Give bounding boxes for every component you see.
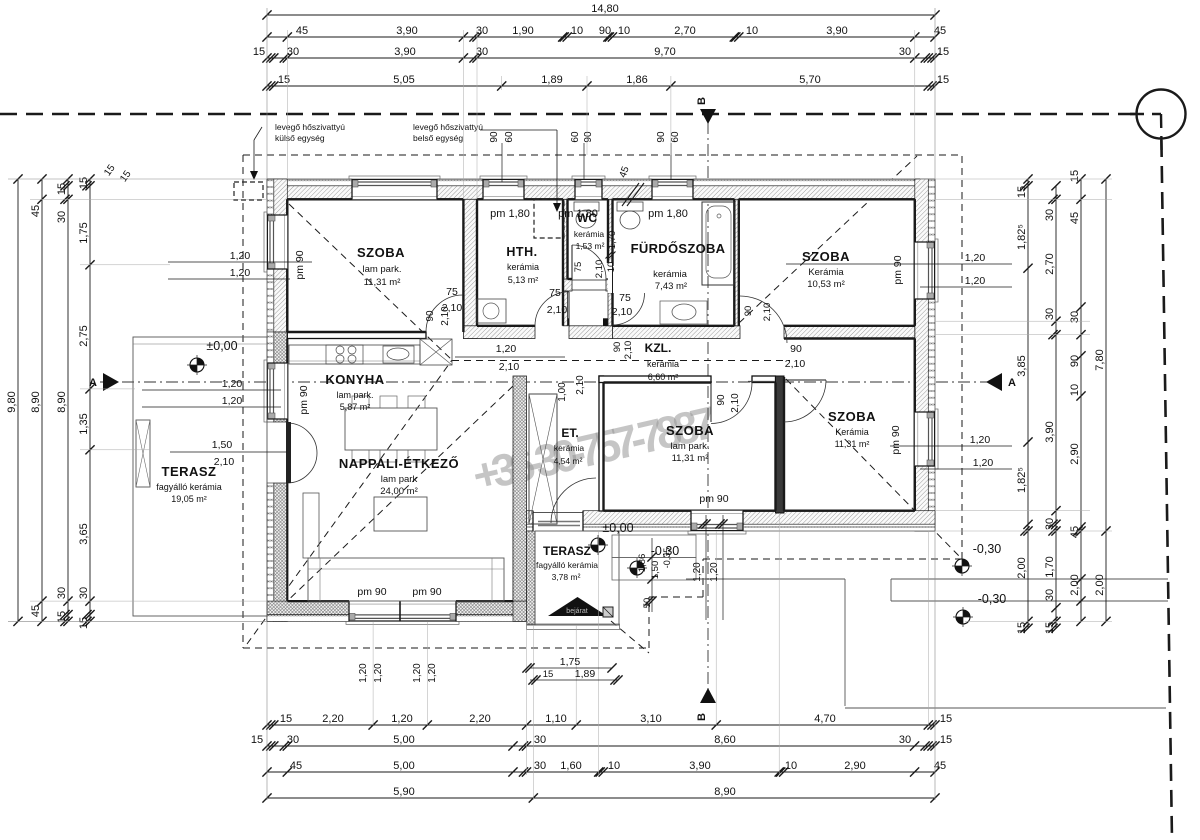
- svg-text:1,86: 1,86: [626, 74, 647, 86]
- door arc WC: [572, 245, 606, 279]
- dining chairs: [352, 396, 425, 462]
- svg-text:HTH.: HTH.: [506, 245, 537, 259]
- label TERASZ south: [536, 544, 598, 582]
- svg-text:-0,35: -0,35: [662, 548, 672, 569]
- svg-text:2,90: 2,90: [844, 760, 865, 772]
- window north WC: [572, 176, 605, 199]
- svg-text:TERASZ: TERASZ: [543, 544, 591, 558]
- window dim szoba1 west: [168, 250, 312, 279]
- svg-text:60: 60: [504, 131, 515, 143]
- svg-text:lam park.: lam park.: [670, 441, 709, 452]
- svg-text:45: 45: [934, 760, 946, 772]
- heat pump indoor unit dashed box: [534, 199, 564, 238]
- svg-text:SZOBA: SZOBA: [828, 409, 876, 424]
- sofa: [308, 558, 504, 601]
- svg-text:15: 15: [1044, 622, 1056, 634]
- door labels szoba middle: [716, 393, 741, 413]
- svg-text:10,53 m²: 10,53 m²: [807, 279, 845, 290]
- svg-text:45: 45: [296, 25, 308, 37]
- window dim konyha west: [142, 378, 281, 407]
- svg-text:1,70: 1,70: [1044, 556, 1056, 577]
- entrance door ET south: [533, 511, 583, 531]
- svg-text:11,31 m²: 11,31 m²: [835, 439, 870, 449]
- svg-text:7,80: 7,80: [1094, 349, 1106, 370]
- svg-text:pm 90: pm 90: [298, 385, 310, 414]
- kitchen counter: [289, 345, 420, 364]
- svg-text:1,20: 1,20: [965, 252, 986, 264]
- door labels FURDO: [612, 292, 633, 318]
- svg-text:NAPPALI-ÉTKEZŐ: NAPPALI-ÉTKEZŐ: [339, 456, 459, 471]
- door labels ET: [557, 375, 586, 402]
- svg-text:2,10: 2,10: [214, 456, 235, 468]
- svg-text:30: 30: [534, 734, 546, 746]
- svg-text:1,89: 1,89: [541, 74, 562, 86]
- svg-text:A: A: [1008, 377, 1016, 389]
- entrance arrow bejarat: [548, 597, 607, 616]
- door arc HTH: [535, 292, 569, 326]
- svg-text:15: 15: [940, 734, 952, 746]
- svg-text:TERASZ: TERASZ: [162, 464, 217, 479]
- closet ET: [529, 394, 557, 524]
- property boundary dashed line top: [0, 113, 1161, 116]
- svg-text:30: 30: [287, 46, 299, 58]
- svg-text:1,53 m²: 1,53 m²: [576, 241, 605, 251]
- interior wall between SZOBA1 and HTH: [463, 199, 477, 338]
- svg-text:pm 90: pm 90: [412, 586, 441, 598]
- svg-text:10: 10: [606, 262, 617, 273]
- svg-text:±0,00: ±0,00: [206, 339, 237, 353]
- svg-text:15: 15: [251, 734, 263, 746]
- survey marker east path 1: [952, 556, 972, 576]
- svg-text:5,05: 5,05: [393, 74, 414, 86]
- svg-text:lam park: lam park: [381, 474, 418, 485]
- svg-text:1,20: 1,20: [222, 378, 243, 390]
- svg-text:SZOBA: SZOBA: [802, 249, 850, 264]
- window dim szoba SE east: [890, 434, 1012, 469]
- kitchen tall cabinet: [420, 339, 452, 365]
- room outline SZOBA bottom-right: [784, 339, 915, 511]
- svg-text:15: 15: [1016, 186, 1028, 198]
- svg-text:2,10: 2,10: [785, 358, 806, 370]
- window east SZOBA bottom-right: [915, 409, 938, 469]
- door dim nappali west: [170, 439, 287, 468]
- dim extension horizontals right: [920, 179, 1112, 621]
- dim extension verticals bottom: [267, 513, 935, 800]
- exterior wall east: [915, 179, 935, 531]
- kitchen sink: [383, 346, 414, 363]
- svg-text:1,20: 1,20: [965, 275, 986, 287]
- label FURDOSZOBA: [631, 241, 726, 292]
- label KONYHA: [325, 372, 384, 412]
- toilet FURDOSZOBA: [617, 202, 643, 229]
- svg-text:ET.: ET.: [561, 426, 578, 440]
- svg-text:10: 10: [571, 25, 583, 37]
- eave dim 45 marker: [618, 165, 644, 206]
- svg-text:2,70: 2,70: [1044, 253, 1056, 274]
- door labels KONYHA opening: [455, 343, 565, 373]
- dining table: [345, 408, 437, 450]
- roof eaves dashed terrace diagonal: [611, 621, 649, 653]
- svg-text:10: 10: [746, 25, 758, 37]
- interior wall band south of top rooms: [287, 326, 915, 339]
- exterior wall west: [267, 179, 287, 621]
- svg-text:pm 1,80: pm 1,80: [648, 208, 688, 220]
- survey marker east path 2: [953, 607, 973, 627]
- washing machine HTH: [477, 299, 506, 323]
- svg-text:3,90: 3,90: [396, 25, 417, 37]
- svg-text:8,90: 8,90: [56, 391, 68, 412]
- window dim szoba NE east: [786, 252, 1012, 287]
- toilet WC: [574, 202, 599, 228]
- svg-text:2,10: 2,10: [575, 375, 586, 395]
- dim col left 2: [30, 174, 47, 626]
- terrace step dims: [637, 515, 728, 620]
- dim col left 3: [56, 174, 73, 626]
- svg-text:3,85: 3,85: [1016, 355, 1028, 376]
- dim row top 4: [262, 74, 949, 91]
- partition nook - szoba SE: [776, 376, 785, 513]
- door labels SZOBA1: [425, 306, 451, 326]
- svg-text:10: 10: [618, 25, 630, 37]
- svg-text:75: 75: [573, 262, 584, 273]
- svg-text:8,90: 8,90: [714, 786, 735, 798]
- svg-text:15: 15: [118, 168, 134, 184]
- washbasin FURDOSZOBA: [660, 301, 707, 324]
- svg-text:2,90: 2,90: [1069, 443, 1081, 464]
- svg-text:2,10: 2,10: [762, 303, 773, 322]
- svg-text:5,00: 5,00: [393, 760, 414, 772]
- svg-text:90: 90: [790, 343, 802, 355]
- section line A-A dashed: [100, 381, 1002, 383]
- svg-text:-0,30: -0,30: [973, 542, 1002, 556]
- label HTH: [506, 245, 539, 285]
- svg-text:B: B: [696, 713, 708, 721]
- svg-text:SZOBA: SZOBA: [357, 245, 405, 260]
- svg-text:3,90: 3,90: [826, 25, 847, 37]
- coffee table: [374, 497, 427, 531]
- svg-text:KZL.: KZL.: [645, 341, 672, 355]
- tv bench: [303, 493, 319, 558]
- section line B-B dashed: [707, 122, 709, 689]
- door labels SZOBA NE: [743, 303, 773, 322]
- svg-text:60: 60: [570, 131, 581, 143]
- garden path south: [686, 579, 1166, 708]
- svg-text:30: 30: [1044, 308, 1056, 320]
- label SZOBA north-west: [357, 245, 405, 288]
- svg-text:1,35: 1,35: [78, 413, 90, 434]
- svg-text:45: 45: [1069, 526, 1081, 538]
- wall middle szoba north: [599, 376, 711, 383]
- roof hip dashed NW: [289, 204, 452, 360]
- door arc SZOBA NE: [740, 296, 787, 343]
- svg-text:3,10: 3,10: [640, 713, 661, 725]
- section mark B bottom: [696, 688, 716, 721]
- svg-text:90: 90: [1069, 355, 1081, 367]
- extra 15 labels top-left: [102, 162, 134, 184]
- svg-text:1,82⁵: 1,82⁵: [1016, 224, 1028, 250]
- svg-text:90: 90: [583, 131, 594, 143]
- svg-text:2,20: 2,20: [322, 713, 343, 725]
- svg-text:1,82⁵: 1,82⁵: [1016, 467, 1028, 493]
- door arc SZOBA middle: [711, 383, 752, 424]
- svg-text:pm 90: pm 90: [699, 493, 728, 505]
- svg-text:pm 90: pm 90: [890, 425, 902, 454]
- svg-text:5,13 m²: 5,13 m²: [508, 275, 539, 285]
- svg-text:1,70: 1,70: [607, 231, 618, 250]
- svg-text:2,10: 2,10: [623, 341, 634, 360]
- svg-text:45: 45: [30, 205, 42, 217]
- svg-text:FÜRDŐSZOBA: FÜRDŐSZOBA: [631, 241, 726, 256]
- dim col right 1: [1016, 174, 1033, 634]
- dim row top 1 total 14,80: [262, 3, 939, 20]
- svg-text:30: 30: [534, 760, 546, 772]
- svg-text:kerámia: kerámia: [554, 443, 585, 453]
- roof valley dashed SE: [786, 379, 960, 557]
- svg-text:30: 30: [78, 587, 90, 599]
- svg-text:pm 90: pm 90: [892, 255, 904, 284]
- svg-text:1,89: 1,89: [575, 668, 596, 680]
- label SZOBA middle: [666, 423, 714, 464]
- svg-text:1,20: 1,20: [970, 434, 991, 446]
- dim row bottom 3: [262, 760, 946, 777]
- svg-text:15: 15: [253, 46, 265, 58]
- svg-text:15: 15: [1069, 170, 1081, 182]
- svg-text:30: 30: [56, 211, 68, 223]
- svg-text:belső egység: belső egység: [413, 133, 463, 143]
- window west SZOBA1: [264, 212, 287, 272]
- heat pump outdoor unit dashed box: [234, 182, 263, 200]
- svg-text:Kerámia: Kerámia: [835, 427, 869, 437]
- dim row top 2 rooms: [262, 25, 946, 42]
- roof hip dashed SW: [247, 360, 452, 644]
- room outline WC: [568, 199, 613, 279]
- survey marker terrace south 1: [588, 535, 608, 555]
- terrace dim row 1,75: [522, 656, 622, 685]
- svg-text:30: 30: [899, 46, 911, 58]
- svg-text:1,10: 1,10: [545, 713, 566, 725]
- svg-text:2,10: 2,10: [594, 260, 605, 279]
- svg-text:1,20: 1,20: [709, 562, 720, 582]
- svg-text:fagyálló kerámia: fagyálló kerámia: [536, 560, 598, 570]
- svg-text:90: 90: [743, 306, 754, 317]
- label TERASZ west: [156, 464, 222, 504]
- window east SZOBA top-right: [915, 239, 938, 302]
- dim col left 1 total 9,80: [6, 174, 23, 626]
- door arc SZOBA1: [426, 295, 463, 332]
- svg-text:1,20: 1,20: [358, 663, 369, 683]
- garden path east: [891, 579, 1168, 601]
- svg-text:9,80: 9,80: [6, 391, 18, 412]
- label NAPPALI: [339, 456, 459, 497]
- svg-text:75: 75: [446, 286, 458, 298]
- svg-text:15: 15: [280, 713, 292, 725]
- wall stub middle szoba north right: [752, 376, 776, 383]
- door labels szoba SE: [785, 343, 806, 370]
- terrace west step: [136, 420, 150, 487]
- exterior wall south-west section: [267, 601, 535, 621]
- room outline FURDOSZOBA: [613, 199, 735, 325]
- window north FURDOSZOBA: [649, 176, 696, 199]
- svg-text:10: 10: [1069, 384, 1081, 396]
- svg-text:4,70: 4,70: [814, 713, 835, 725]
- terrace west outline: [133, 337, 267, 616]
- svg-text:bejárat: bejárat: [566, 608, 587, 615]
- svg-text:kerámia: kerámia: [574, 229, 605, 239]
- dim extension horizontals left: [8, 179, 267, 621]
- dim col right 4: [1094, 174, 1111, 626]
- svg-text:-0,30: -0,30: [978, 592, 1007, 606]
- dim row bottom 2: [251, 734, 952, 751]
- svg-text:15: 15: [278, 74, 290, 86]
- svg-text:1,20: 1,20: [496, 343, 517, 355]
- kitchen stove: [326, 345, 363, 364]
- threshold line szoba SE nook: [748, 381, 783, 383]
- svg-text:±0,00: ±0,00: [602, 521, 633, 535]
- terrace south slab: [527, 531, 620, 630]
- svg-text:fagyálló kerámia: fagyálló kerámia: [156, 482, 222, 492]
- svg-text:45: 45: [1069, 212, 1081, 224]
- label KZL: [645, 341, 679, 382]
- svg-text:1,60: 1,60: [560, 760, 581, 772]
- svg-text:2,70: 2,70: [674, 25, 695, 37]
- room outline SZOBA top-right: [739, 199, 915, 325]
- svg-text:Kerámia: Kerámia: [808, 267, 844, 278]
- svg-text:15: 15: [78, 617, 90, 629]
- dim labels furdo interior: [606, 231, 619, 273]
- exterior wall step between sections: [513, 511, 535, 625]
- svg-text:1,20: 1,20: [412, 663, 423, 683]
- room outline SZOBA1: [287, 199, 463, 332]
- svg-text:24,00 m²: 24,00 m²: [380, 486, 418, 497]
- svg-text:1,20: 1,20: [427, 663, 438, 683]
- dim row bottom 4: [262, 786, 939, 803]
- svg-text:2,10: 2,10: [442, 302, 463, 314]
- dim col right 3: [1069, 170, 1086, 626]
- dim row bottom 1: [262, 713, 952, 730]
- svg-text:KONYHA: KONYHA: [325, 372, 384, 387]
- svg-text:1,20: 1,20: [391, 713, 412, 725]
- svg-text:30: 30: [1044, 518, 1056, 530]
- partition FURDO-SZOBA: [734, 199, 739, 325]
- svg-text:pm 90: pm 90: [294, 250, 306, 279]
- dim col right 2: [1044, 181, 1061, 634]
- svg-text:30: 30: [287, 734, 299, 746]
- svg-text:pm 1,80: pm 1,80: [490, 208, 530, 220]
- door stop blocks lobby: [564, 318, 609, 326]
- partition HTH-WC: [563, 199, 568, 325]
- svg-text:1,20: 1,20: [230, 267, 251, 279]
- svg-text:kerámia: kerámia: [647, 359, 679, 369]
- svg-text:2,20: 2,20: [469, 713, 490, 725]
- window south SZOBA middle: [688, 511, 746, 534]
- door arc entrance ET: [551, 478, 596, 523]
- svg-text:levegő hőszivattyú: levegő hőszivattyú: [413, 122, 483, 132]
- label heat pump outdoor: [275, 122, 345, 143]
- svg-text:15: 15: [1016, 622, 1028, 634]
- svg-text:1,86: 1,86: [637, 554, 648, 573]
- svg-text:8,60: 8,60: [714, 734, 735, 746]
- svg-text:11,31 m²: 11,31 m²: [672, 453, 709, 464]
- svg-text:75: 75: [619, 292, 631, 304]
- svg-text:10: 10: [608, 760, 620, 772]
- door width labels near WC-FURDO: [612, 341, 634, 360]
- exterior wall south-east section: [513, 511, 935, 531]
- survey marker terrace west: [187, 355, 207, 375]
- svg-text:1,90: 1,90: [512, 25, 533, 37]
- svg-text:5,87 m²: 5,87 m²: [340, 402, 371, 412]
- svg-text:15: 15: [937, 46, 949, 58]
- svg-text:45: 45: [30, 605, 42, 617]
- svg-text:11,31 m²: 11,31 m²: [364, 277, 401, 288]
- svg-text:90: 90: [716, 394, 727, 406]
- svg-text:30: 30: [899, 734, 911, 746]
- svg-text:3,78 m²: 3,78 m²: [552, 572, 581, 582]
- svg-text:6,60 m²: 6,60 m²: [648, 372, 679, 382]
- room outline SZOBA middle: [604, 383, 776, 511]
- room diagonal dashed NAPPALI: [287, 386, 513, 601]
- survey marker terrace south 2: [627, 558, 647, 578]
- svg-text:1,20: 1,20: [373, 663, 384, 683]
- heat pump indoor leader: [480, 130, 561, 212]
- svg-text:4,54 m²: 4,54 m²: [554, 456, 583, 466]
- exterior wall north: [267, 179, 935, 199]
- svg-text:30: 30: [1044, 209, 1056, 221]
- svg-text:1,20: 1,20: [692, 562, 703, 582]
- door arcs NAPPALI french door: [286, 422, 317, 483]
- svg-text:2,00: 2,00: [1016, 557, 1028, 578]
- partition ET-SZOBA middle: [599, 376, 604, 511]
- window head dim labels: [489, 131, 681, 182]
- svg-text:90: 90: [489, 131, 500, 143]
- svg-text:15: 15: [937, 74, 949, 86]
- svg-text:30: 30: [476, 25, 488, 37]
- svg-text:90: 90: [612, 342, 623, 353]
- svg-text:45: 45: [934, 25, 946, 37]
- svg-text:2,00: 2,00: [1069, 574, 1081, 595]
- svg-text:5,70: 5,70: [799, 74, 820, 86]
- svg-text:90: 90: [425, 310, 436, 322]
- svg-text:1,75: 1,75: [560, 656, 581, 668]
- roof hip dashed NE: [739, 156, 917, 323]
- svg-text:5,90: 5,90: [393, 786, 414, 798]
- svg-text:5,00: 5,00: [393, 734, 414, 746]
- window axis dim labels south: [358, 663, 438, 683]
- svg-text:15: 15: [102, 162, 118, 178]
- svg-text:3,90: 3,90: [394, 46, 415, 58]
- svg-text:2,10: 2,10: [612, 306, 633, 318]
- dim row top 3: [253, 46, 949, 63]
- svg-text:45: 45: [290, 760, 302, 772]
- dim extension verticals top: [267, 8, 935, 199]
- svg-text:45: 45: [618, 165, 632, 180]
- label WC: [574, 211, 605, 251]
- svg-text:30: 30: [476, 46, 488, 58]
- interior wall NAPPALI-ET: [513, 376, 527, 601]
- svg-text:2,75: 2,75: [78, 325, 90, 346]
- partition WC-FURDO: [608, 199, 613, 325]
- svg-text:lam park.: lam park.: [362, 264, 401, 275]
- window north SZOBA1: [349, 176, 440, 199]
- section mark A right: [986, 373, 1016, 391]
- svg-text:75: 75: [549, 287, 561, 299]
- door arc SZOBA bottom-right: [784, 380, 826, 422]
- window south NAPPALI: [346, 601, 459, 624]
- svg-text:3,65: 3,65: [78, 523, 90, 544]
- svg-text:kerámia: kerámia: [507, 262, 539, 272]
- svg-text:9,70: 9,70: [654, 46, 675, 58]
- svg-text:lam park.: lam park.: [336, 390, 373, 400]
- svg-text:90: 90: [656, 131, 667, 143]
